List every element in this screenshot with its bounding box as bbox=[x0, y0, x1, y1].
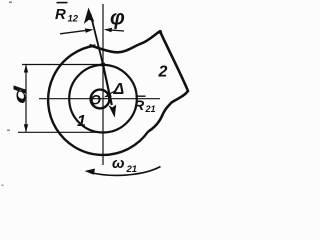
dimension line d bbox=[25, 65, 27, 133]
svg-text:φ: φ bbox=[110, 7, 125, 30]
paper background bbox=[0, 0, 199, 192]
svg-text:O: O bbox=[90, 92, 101, 108]
svg-text:2: 2 bbox=[158, 64, 168, 81]
omega21 rotation arrow bbox=[90, 167, 161, 176]
svg-text:Δ: Δ bbox=[113, 81, 125, 98]
link 2 body outline bbox=[90, 31, 189, 131]
scan specks bbox=[9, 2, 12, 3]
svg-text:d: d bbox=[11, 84, 30, 104]
label R12 with bar bbox=[57, 2, 68, 4]
svg-text:1: 1 bbox=[77, 113, 86, 130]
angle phi left arrow bbox=[60, 30, 89, 34]
horizontal center line bbox=[39, 98, 160, 100]
svg-text:12: 12 bbox=[68, 14, 79, 25]
svg-text:R: R bbox=[55, 6, 66, 23]
ink blob at body corner bbox=[158, 30, 162, 34]
svg-text:21: 21 bbox=[145, 104, 156, 114]
bottom extension line (tangent to pin bottom) bbox=[18, 131, 103, 133]
label d bbox=[11, 84, 30, 104]
angle phi right arrow bbox=[108, 30, 124, 31]
dimension arrowhead bottom bbox=[24, 124, 28, 132]
outer bearing circle (link 2 bore) bbox=[48, 46, 148, 155]
vector R21 arrowhead bbox=[109, 105, 117, 118]
dimension arrowhead top bbox=[24, 65, 28, 73]
inner pin circle (link 1) bbox=[69, 65, 137, 133]
vector R21 shaft bbox=[103, 65, 112, 106]
top extension line (tangent to pin top) bbox=[22, 64, 103, 66]
vertical center line bbox=[102, 4, 104, 165]
label R21 with bar bbox=[136, 95, 146, 97]
vector R12 shaft bbox=[91, 14, 104, 65]
clearance circle at center O bbox=[91, 90, 110, 109]
svg-text:R: R bbox=[134, 97, 145, 113]
svg-text:21: 21 bbox=[126, 164, 138, 175]
vector R12 arrowhead bbox=[84, 8, 95, 25]
contact node at pin top bbox=[101, 62, 106, 67]
Delta pointer arrow bbox=[107, 92, 114, 96]
svg-text:ω: ω bbox=[112, 155, 125, 172]
